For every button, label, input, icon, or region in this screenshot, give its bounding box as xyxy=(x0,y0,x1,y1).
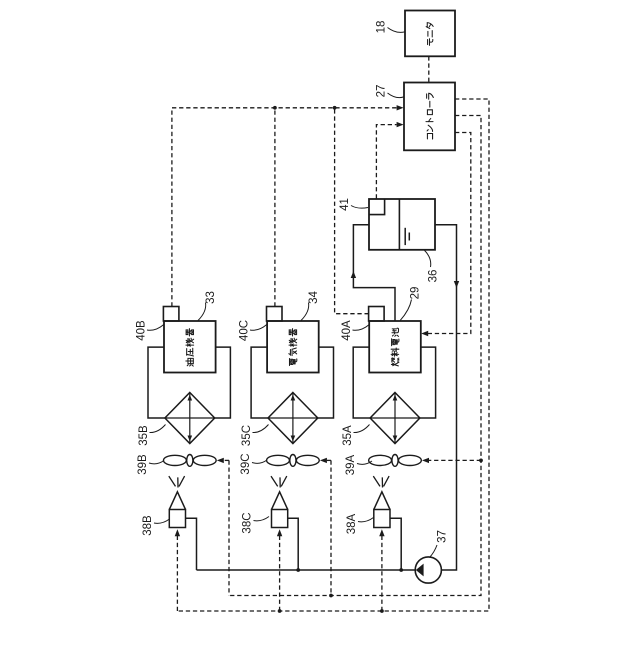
svg-text:38B: 38B xyxy=(142,515,154,536)
level sensor box 41 xyxy=(369,199,385,215)
wire 40A sensor line dashed xyxy=(335,108,369,314)
arrow into fuel cell right xyxy=(421,331,428,336)
water main line from pump xyxy=(197,569,416,571)
junction dot 40A-bus xyxy=(333,106,337,110)
pipe tank left to fuel cell xyxy=(353,225,395,321)
arrow into nozzle 38B xyxy=(175,529,180,536)
spray nozzle 38C xyxy=(272,510,288,528)
fan 39C xyxy=(267,455,320,467)
arrow into controller input 2 xyxy=(397,122,404,127)
radiator 35A xyxy=(370,393,420,444)
svg-text:29: 29 xyxy=(410,287,422,300)
electric equipment 34 box xyxy=(267,321,319,373)
tank divider xyxy=(398,199,400,250)
wire controller output 2 dashed xyxy=(229,116,481,596)
nozzle spray lines 38C xyxy=(271,476,287,487)
svg-text:40B: 40B xyxy=(136,320,148,341)
nozzle spray lines 38A xyxy=(373,476,389,487)
wire nozzle 38B control dashed xyxy=(176,532,178,612)
svg-text:39A: 39A xyxy=(345,454,357,475)
fan 39B xyxy=(163,455,216,467)
radiator 35C xyxy=(268,393,318,444)
thermostat 40B box xyxy=(163,307,179,322)
svg-text:27: 27 xyxy=(376,85,388,98)
leader 38B xyxy=(154,519,170,523)
wire nozzle 38C control dashed xyxy=(279,532,281,612)
pipe tank right to pump xyxy=(435,225,457,570)
junction dot riser A xyxy=(399,568,403,572)
wire tank sensor to controller dashed xyxy=(376,125,396,199)
arrow into fan 39C xyxy=(320,458,327,463)
svg-text:38A: 38A xyxy=(346,513,358,534)
wire fan 39B control dashed xyxy=(228,460,230,595)
junction dot nozzle bus A xyxy=(380,609,384,613)
fan 39A xyxy=(369,455,422,467)
wire controller output 3 to fuel cell dashed xyxy=(428,133,471,334)
wire fan 39C control dashed xyxy=(330,460,332,595)
svg-text:40C: 40C xyxy=(239,320,251,341)
leader 40A xyxy=(353,325,370,331)
leader 35C xyxy=(253,425,269,433)
svg-text:38C: 38C xyxy=(242,512,254,533)
leader 34 xyxy=(301,303,309,321)
junction dot riser C xyxy=(296,568,300,572)
arrow into fan 39B xyxy=(217,458,224,463)
wire sensor bus to controller input 1 dashed xyxy=(172,108,397,307)
coolant loop C left xyxy=(251,347,268,418)
leader 35B xyxy=(150,425,166,433)
leader 36 xyxy=(425,250,431,267)
junction dot fan A xyxy=(479,459,483,463)
leader 37 xyxy=(430,545,438,558)
svg-text:35C: 35C xyxy=(241,425,253,446)
svg-text:39B: 39B xyxy=(137,454,149,475)
svg-text:33: 33 xyxy=(205,291,217,304)
thermostat 40C box xyxy=(267,307,283,322)
leader 18 xyxy=(388,28,405,33)
leader 40C xyxy=(250,325,267,331)
coolant loop A left xyxy=(353,347,370,418)
svg-text:35A: 35A xyxy=(342,425,354,446)
wire 40C sensor riser dashed xyxy=(274,108,276,307)
leader 33 xyxy=(198,303,206,321)
pump 37 xyxy=(415,557,441,583)
thermostat 40A box xyxy=(369,307,385,322)
wire nozzle 38A control dashed xyxy=(381,532,383,612)
water pipe to nozzle 38C xyxy=(288,518,299,570)
leader 39C xyxy=(252,460,267,463)
water pipe to nozzle 38A xyxy=(390,518,401,570)
svg-text:39C: 39C xyxy=(240,453,252,474)
leader 38A xyxy=(358,518,374,522)
svg-text:40A: 40A xyxy=(341,320,353,341)
arrow into nozzle 38A xyxy=(379,529,384,536)
controller box 27 xyxy=(404,83,455,151)
leader 27 xyxy=(388,93,404,98)
junction dot 40C-bus xyxy=(273,106,277,110)
hydraulic equipment 33 box xyxy=(164,321,216,373)
leader 41 xyxy=(351,206,368,209)
leader 40B xyxy=(147,325,164,331)
leader 38C xyxy=(254,517,270,521)
radiator 35B xyxy=(165,393,215,444)
arrow into fan 39A xyxy=(422,458,429,463)
coolant loop B left xyxy=(148,347,165,418)
leader 35A xyxy=(354,425,370,433)
arrow up on tank inlet pipe xyxy=(351,271,356,278)
fuel cell 29 box xyxy=(369,321,421,373)
svg-text:36: 36 xyxy=(428,270,440,283)
arrow into nozzle 38C xyxy=(277,529,282,536)
coolant loop B right xyxy=(215,347,231,418)
wire monitor-controller dashed xyxy=(428,56,430,82)
svg-text:18: 18 xyxy=(376,21,388,34)
svg-text:41: 41 xyxy=(339,198,351,211)
nozzle spray lines 38B xyxy=(169,476,185,487)
leader 39A xyxy=(357,461,372,464)
coolant loop C right xyxy=(318,347,334,418)
junction dot nozzle bus C xyxy=(278,609,282,613)
water pipe to nozzle 38B xyxy=(186,518,197,570)
junction fan bus C xyxy=(329,594,333,598)
monitor box 18 xyxy=(405,11,455,57)
spray nozzle 38A xyxy=(374,510,390,528)
svg-text:34: 34 xyxy=(308,291,320,304)
spray nozzle 38B xyxy=(169,510,185,528)
arrow into controller input 1 xyxy=(397,105,404,110)
wire controller output 1 dashed xyxy=(177,99,489,611)
svg-text:35B: 35B xyxy=(138,425,150,446)
leader 39B xyxy=(149,461,164,464)
level gauge marks xyxy=(404,228,406,245)
svg-text:37: 37 xyxy=(437,530,449,543)
coolant loop A right xyxy=(420,347,436,418)
arrow down on pump suction pipe xyxy=(454,281,459,288)
leader 29 xyxy=(400,300,411,321)
wire fan 39A control dashed xyxy=(429,459,481,461)
tank 36 xyxy=(369,199,435,250)
